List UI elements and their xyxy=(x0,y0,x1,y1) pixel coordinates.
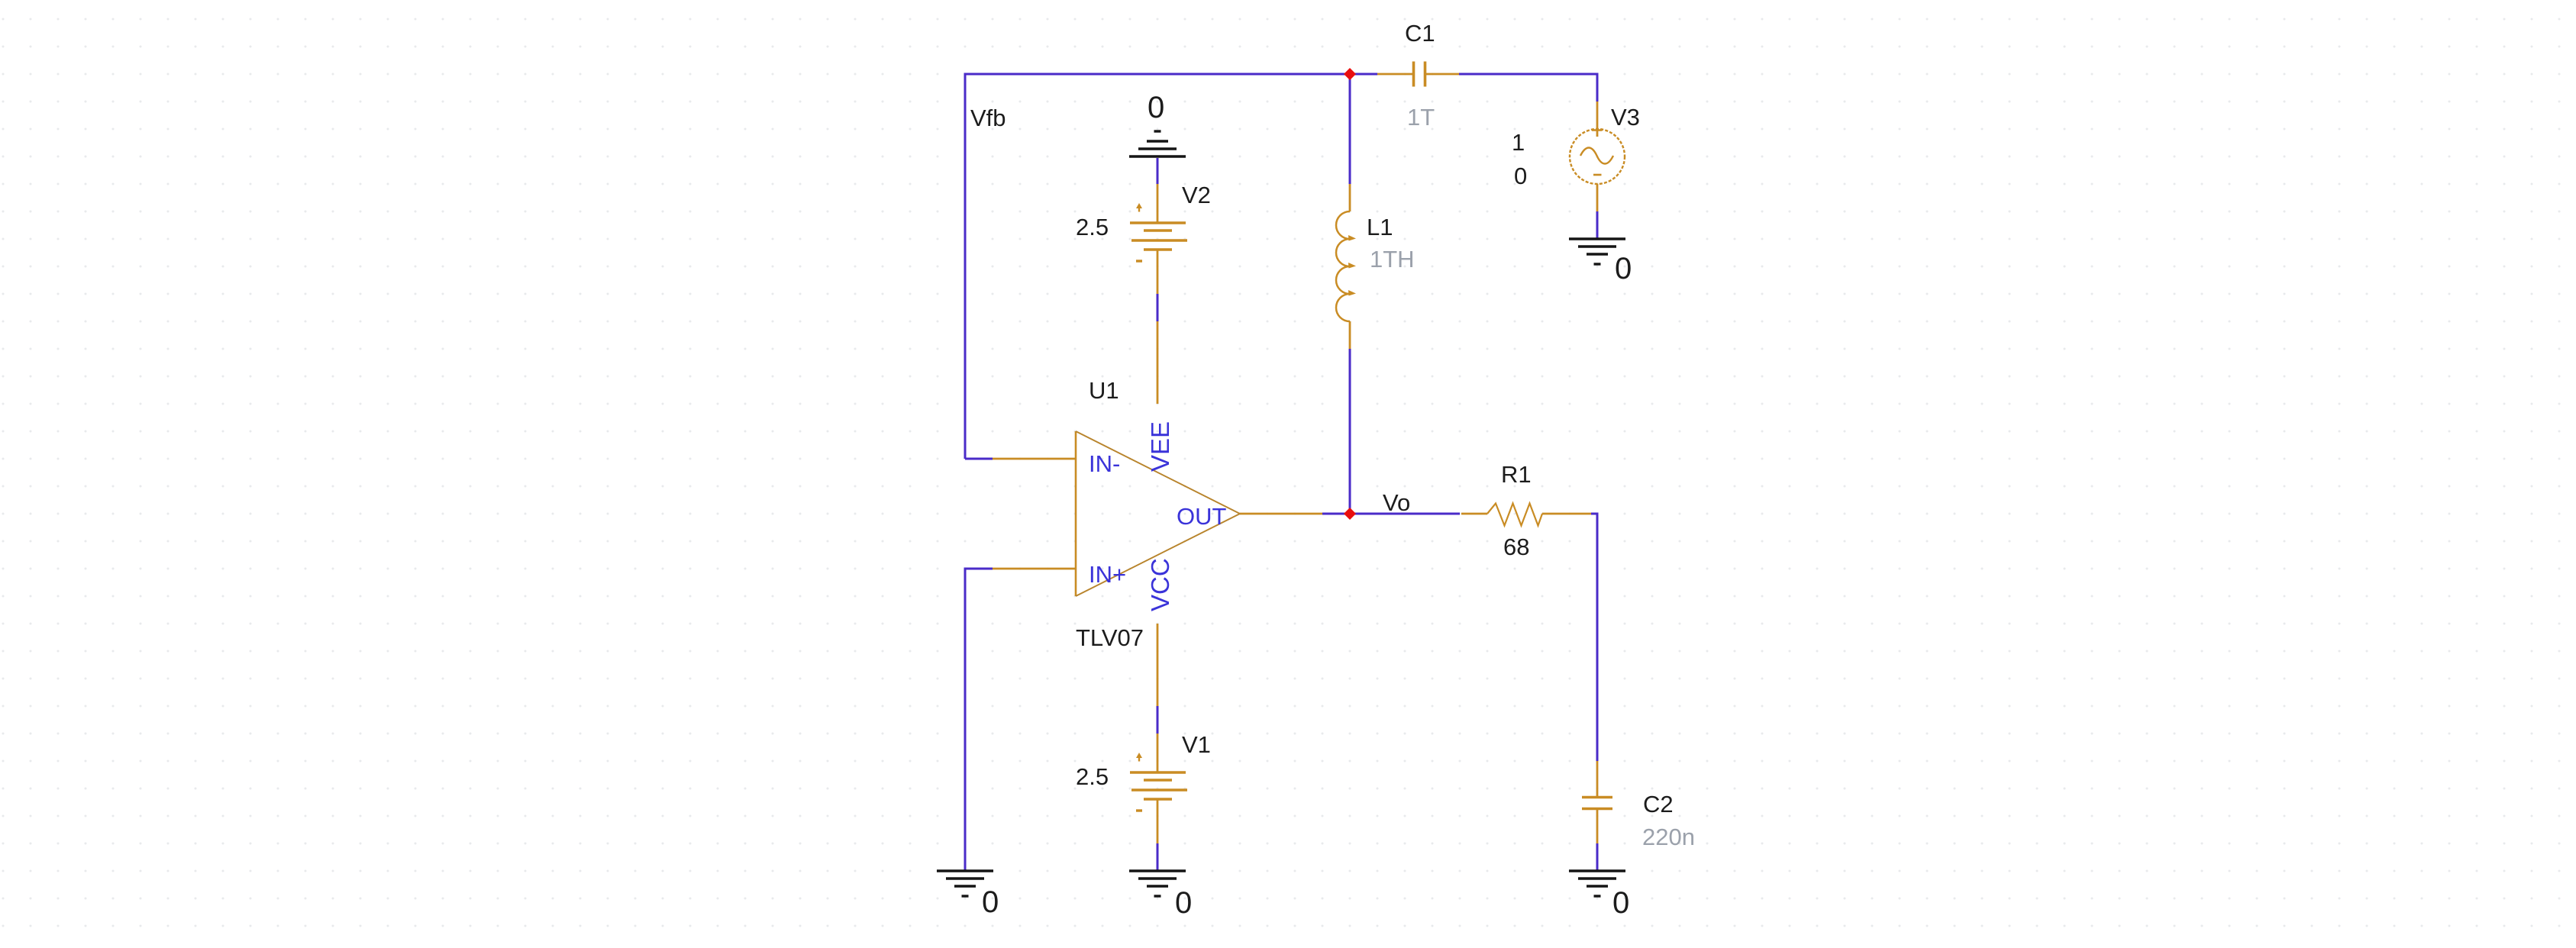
svg-text:Vo: Vo xyxy=(1383,489,1410,516)
svg-text:IN-: IN- xyxy=(1089,450,1120,477)
svg-text:Vfb: Vfb xyxy=(970,105,1006,131)
svg-text:1T: 1T xyxy=(1407,104,1435,131)
svg-text:L1: L1 xyxy=(1367,214,1393,240)
svg-text:VCC: VCC xyxy=(1146,558,1174,611)
svg-text:VEE: VEE xyxy=(1146,421,1174,472)
svg-text:2.5: 2.5 xyxy=(1076,214,1109,240)
svg-text:220n: 220n xyxy=(1642,824,1695,850)
svg-text:1: 1 xyxy=(1512,129,1525,156)
svg-text:0: 0 xyxy=(1514,163,1527,189)
svg-text:0: 0 xyxy=(1615,252,1632,285)
svg-text:R1: R1 xyxy=(1501,461,1532,488)
svg-text:IN+: IN+ xyxy=(1089,561,1126,588)
svg-text:68: 68 xyxy=(1503,534,1529,560)
svg-text:0: 0 xyxy=(1175,886,1192,920)
svg-text:2.5: 2.5 xyxy=(1076,763,1109,790)
svg-text:OUT: OUT xyxy=(1177,503,1227,530)
svg-text:V3: V3 xyxy=(1611,104,1640,131)
svg-text:C1: C1 xyxy=(1405,20,1435,47)
svg-text:V2: V2 xyxy=(1182,182,1211,208)
svg-text:1TH: 1TH xyxy=(1370,246,1415,272)
svg-text:U1: U1 xyxy=(1089,377,1119,404)
svg-text:0: 0 xyxy=(1612,886,1629,920)
svg-text:C2: C2 xyxy=(1643,791,1674,817)
svg-text:0: 0 xyxy=(982,885,999,919)
svg-text:0: 0 xyxy=(1148,91,1164,124)
svg-text:TLV07: TLV07 xyxy=(1076,624,1144,651)
svg-text:V1: V1 xyxy=(1182,731,1211,758)
